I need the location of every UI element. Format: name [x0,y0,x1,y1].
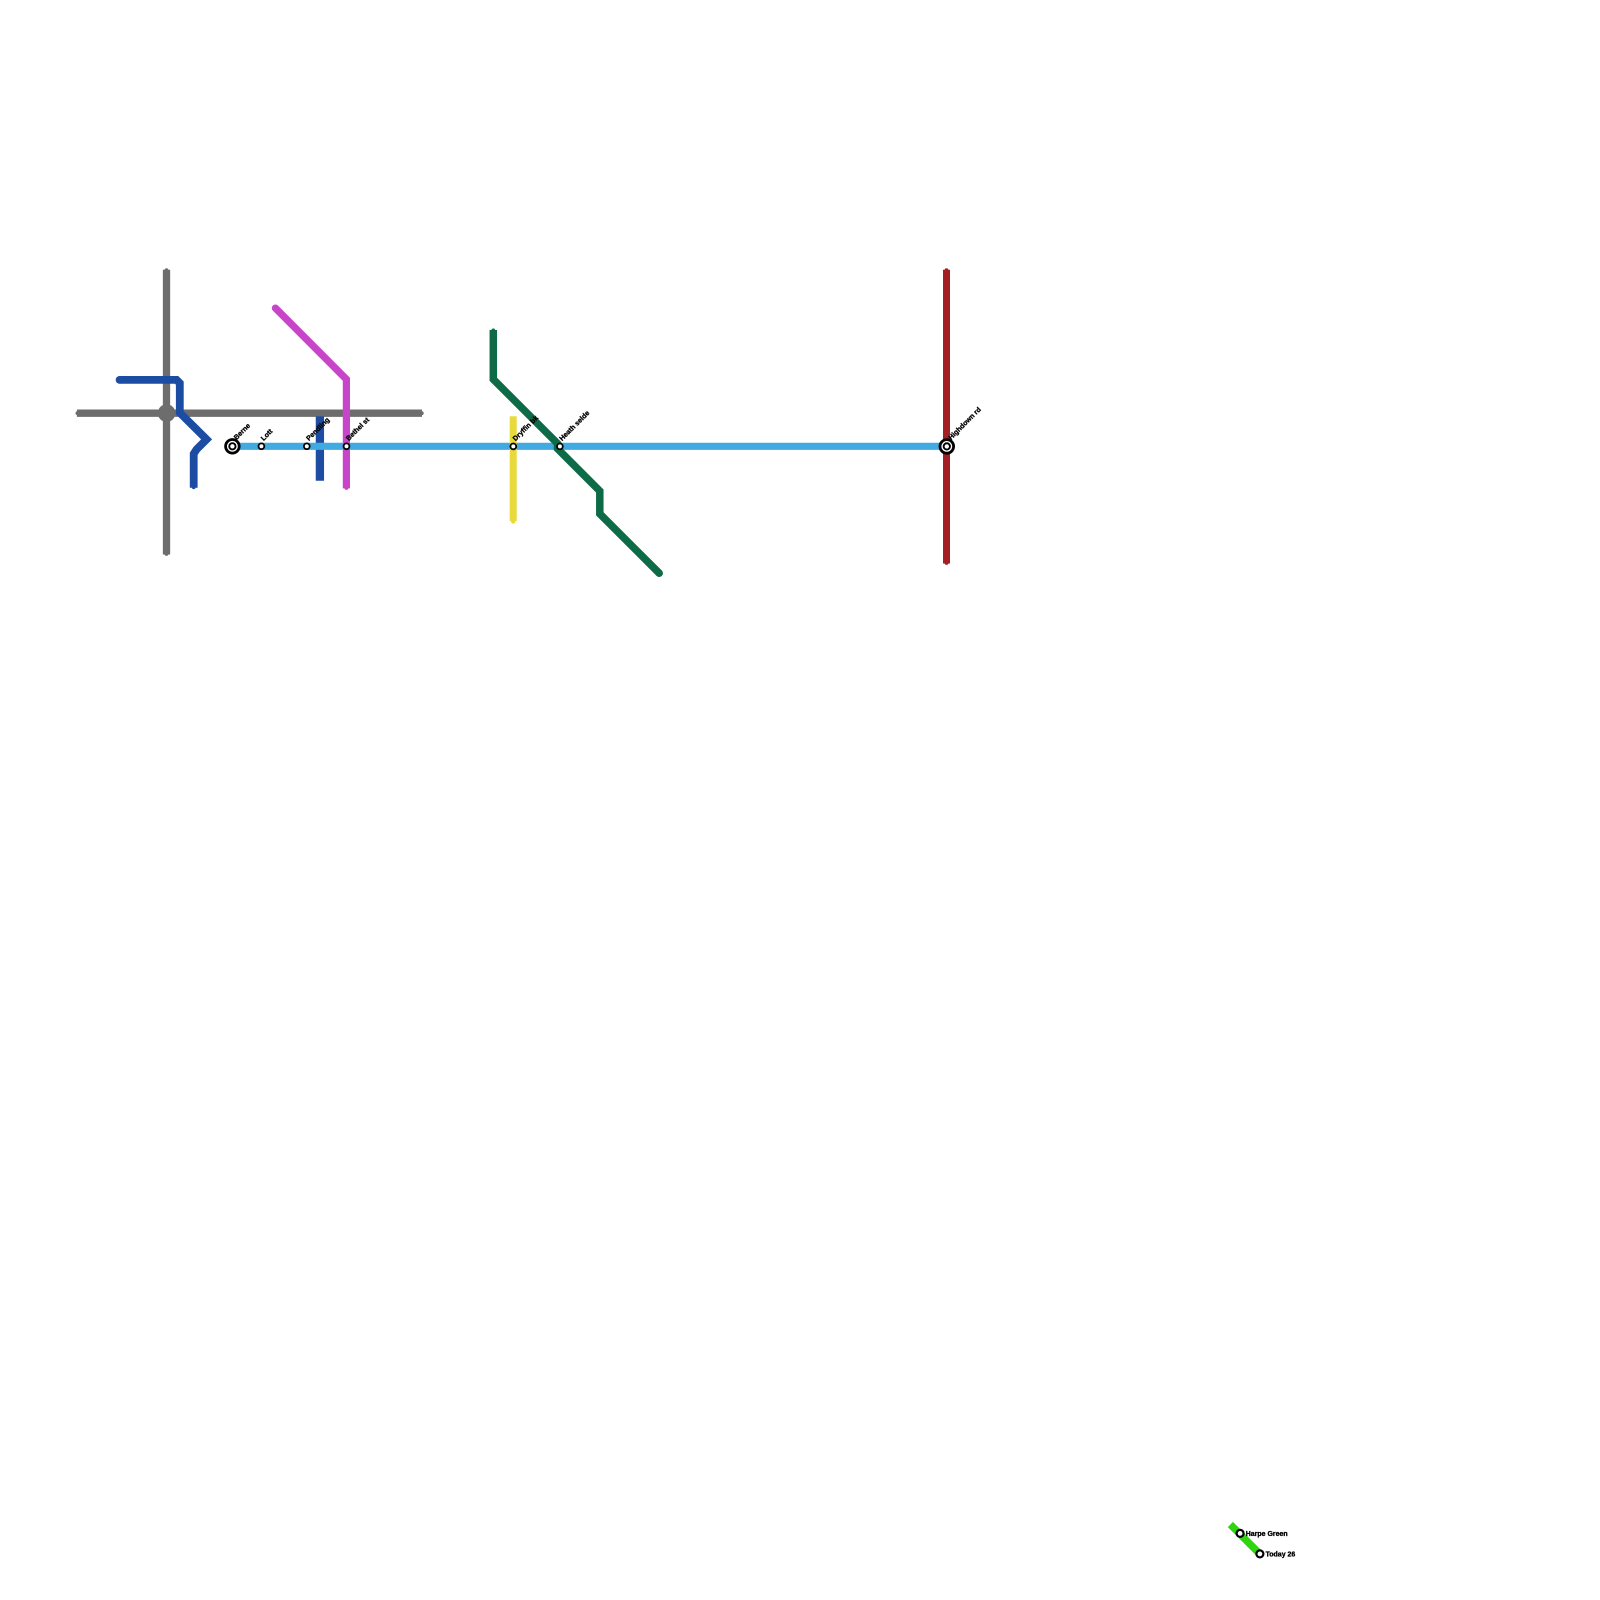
wire teal line zigzag [493,330,659,573]
wire navy line zigzag [120,380,207,488]
svg-text:Harpe Green: Harpe Green [1246,1531,1288,1538]
node cap nub red top [945,268,949,272]
wire magenta line [275,308,346,488]
node cap nub red bottom [945,561,949,565]
wire light blue line horizontal [232,443,946,450]
station Today 26 [1256,1550,1295,1558]
node yellow round end cap [511,519,515,523]
node cap nub gray vertical bottom [165,552,169,556]
node teal round end cap [655,569,663,577]
wire green line bottom right [1230,1525,1260,1555]
node cap nub magenta bottom [345,486,349,490]
wire navy short vertical [316,416,324,480]
node cap nub gray horizontal left [76,411,80,415]
station Highdown rd interchange [940,406,983,453]
wire yellow line vertical [510,416,517,521]
node navy round start cap [116,376,124,384]
node cap nub gray vertical top [165,268,169,272]
station Pendling [304,417,331,450]
node gray interchange diamond [158,404,176,422]
wire gray line vertical [163,270,170,555]
station Berne interchange [226,422,253,453]
node cap nub teal top [491,329,495,333]
node magenta round start cap [272,305,279,312]
station Heath selde [557,410,591,449]
wire gray line horizontal [77,410,422,417]
svg-text:Today 26: Today 26 [1266,1551,1296,1558]
station Harpe Green [1237,1530,1288,1538]
station Dryfin bk [510,415,540,450]
station Lott [259,428,275,449]
node cap nub gray horizontal right [420,411,424,415]
wire red line vertical [943,270,950,564]
node cap nub navy zigzag bottom [192,485,196,489]
station Ethel st [344,416,372,449]
